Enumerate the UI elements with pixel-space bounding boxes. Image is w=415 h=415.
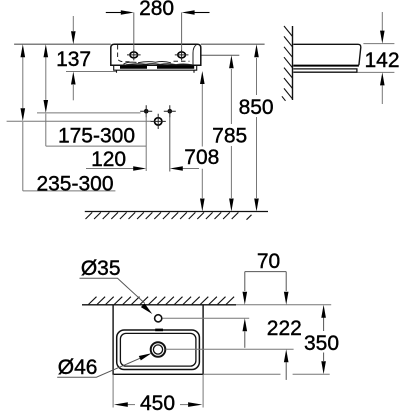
mounting hole cross 2 xyxy=(168,109,173,114)
dim 708 bottom arrow xyxy=(200,199,205,212)
svg-text:280: 280 xyxy=(139,0,174,20)
wall hatching xyxy=(88,297,234,305)
dim 450 ext line right xyxy=(202,374,204,407)
svg-text:708: 708 xyxy=(184,146,219,169)
svg-text:450: 450 xyxy=(140,392,175,415)
svg-text:785: 785 xyxy=(212,125,247,148)
side basin body xyxy=(293,44,361,65)
dim 785 bottom arrow xyxy=(229,199,234,212)
mounting hole cross 1 xyxy=(144,109,149,114)
faucet hole right (ellipse + cross) xyxy=(178,52,186,58)
floor line xyxy=(85,211,268,213)
wire: front edge ext line right xyxy=(203,373,330,375)
faucet hole left (ellipse + cross) xyxy=(130,52,138,58)
wire: faucet level line right xyxy=(163,317,250,319)
dim 350 top arrow xyxy=(321,305,326,318)
floor hatching xyxy=(86,212,252,219)
dim 142 bottom ext line xyxy=(358,71,395,73)
dim 70 down arrow (wall) xyxy=(244,272,246,291)
wire: 137 bottom ref line xyxy=(66,71,116,73)
basin bowl inner rounded rect xyxy=(120,333,195,366)
dim 222 down arrow (wall) xyxy=(285,272,287,291)
overflow mark xyxy=(155,329,163,332)
wire: faucet-hole level line right extension (785 ref) xyxy=(201,54,240,56)
svg-text:850: 850 xyxy=(239,96,274,119)
dim 175-300 bottom arrow xyxy=(44,100,49,113)
label Ø46 leader xyxy=(57,358,140,377)
wire: top level line right extension (850 ref) xyxy=(201,43,265,45)
wall line grey extension right (350 ref) xyxy=(236,304,331,306)
basin plinth outline xyxy=(114,65,197,70)
label 175-300 shelf xyxy=(46,145,146,147)
dim 175-300 top arrow xyxy=(44,44,49,57)
dim 222 up arrow (drain line) xyxy=(285,362,287,380)
dim 450 right arrow xyxy=(180,404,188,406)
dim 450 left arrow xyxy=(128,404,136,406)
label 235-300 shelf xyxy=(23,190,116,192)
svg-text:137: 137 xyxy=(56,48,91,71)
basin front body outline xyxy=(111,44,201,65)
extension line hole left xyxy=(133,13,135,51)
dim 120 right shelf + arrow xyxy=(183,168,199,170)
side basin lip xyxy=(293,69,357,72)
drain inner circle xyxy=(153,345,162,354)
side wall line xyxy=(292,26,294,100)
basin feet xyxy=(117,70,195,73)
wire: drain level line right xyxy=(166,348,294,350)
basin plinth black band xyxy=(120,66,194,69)
svg-text:175-300: 175-300 xyxy=(58,124,135,147)
basin plan outer rect xyxy=(113,305,203,375)
dim 120 left shelf + arrow xyxy=(86,168,134,170)
dim 850 top arrow xyxy=(254,44,259,57)
dim 142 bottom arrow xyxy=(381,86,383,105)
svg-text:235-300: 235-300 xyxy=(36,172,113,195)
wire: vertical from cross 2 xyxy=(169,114,171,172)
dim 235-300 bottom arrow xyxy=(21,108,26,121)
basin interior dashed hidden line right xyxy=(174,60,190,62)
dim 137 top arrow xyxy=(72,16,74,31)
dim 280 line right + arrow xyxy=(194,12,209,14)
side wall hatching xyxy=(282,26,293,101)
svg-text:Ø46: Ø46 xyxy=(58,356,98,379)
dim 450 ext line left xyxy=(112,374,114,407)
basin bowl outer rounded rect xyxy=(117,330,200,370)
wire: vertical from cross 1 xyxy=(145,114,147,172)
svg-text:222: 222 xyxy=(267,317,302,340)
basin interior drain mound arcs xyxy=(124,62,172,65)
dim 280 line left + arrow xyxy=(106,12,121,14)
svg-text:Ø35: Ø35 xyxy=(81,257,121,280)
dim 785 vertical line xyxy=(230,69,232,198)
basin interior dashed bowl line left xyxy=(118,45,130,62)
dim 142 top ext line xyxy=(363,43,394,45)
basin interior lower wavy line xyxy=(126,64,192,65)
dim 708 top arrow xyxy=(200,71,205,84)
dim 708 vertical line xyxy=(201,84,203,198)
dim 175-300 vertical line xyxy=(45,57,47,146)
svg-text:142: 142 xyxy=(364,49,399,72)
wire: circle level line xyxy=(7,120,151,122)
dim 70 up arrow (faucet line) xyxy=(244,332,246,348)
dim 850 bottom arrow xyxy=(254,199,259,212)
basin interior right rim curve xyxy=(193,45,196,65)
label Ø35 leader xyxy=(80,278,145,303)
dim 350 bottom arrow xyxy=(321,361,326,374)
svg-text:350: 350 xyxy=(304,332,339,355)
drain outer circle xyxy=(151,342,166,357)
wire: hole level line xyxy=(37,112,141,114)
faucet hole plan xyxy=(155,315,162,322)
drain circle cross xyxy=(155,118,162,125)
wall line xyxy=(82,304,236,306)
svg-text:120: 120 xyxy=(91,148,126,171)
dim 850 vertical line xyxy=(256,58,258,198)
dim 70 shelf xyxy=(245,271,286,273)
wire: top level line left extension xyxy=(14,43,111,45)
dim 137 bottom arrow xyxy=(72,85,74,100)
dim 350 vertical line xyxy=(323,318,325,362)
svg-text:70: 70 xyxy=(257,250,280,273)
dim 785 top arrow xyxy=(229,55,234,68)
dim 235-300 vertical line xyxy=(22,57,24,191)
extension line hole right xyxy=(181,13,183,51)
dim 142 top arrow xyxy=(381,12,383,31)
dim 235-300 top arrow xyxy=(21,44,26,57)
